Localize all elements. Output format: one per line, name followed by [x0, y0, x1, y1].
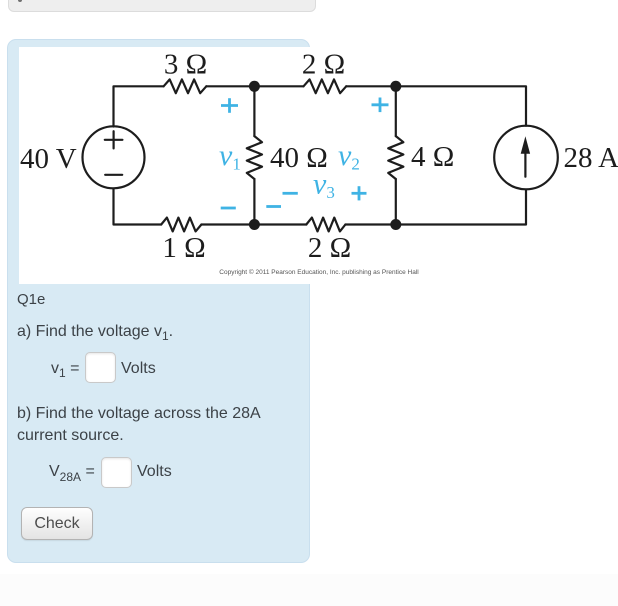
resistor R 2ohm (bottom middle) — [306, 218, 345, 232]
label 2 ohm bottom — [308, 232, 351, 264]
resistor R 4ohm (right vertical branch) — [388, 86, 403, 224]
label 40 ohm — [270, 142, 328, 174]
label 1 ohm — [162, 232, 205, 264]
wire: bottom rail between resistors (through bottom nodes) — [201, 223, 306, 225]
voltage source plus terminal — [105, 131, 123, 148]
wire: top rail left (source top to 3-ohm) — [114, 86, 164, 126]
blue question panel — [7, 39, 310, 563]
resistor R 1ohm (bottom left) — [161, 218, 201, 232]
node D (bottom middle-right junction) — [390, 219, 401, 230]
white circuit figure panel — [19, 47, 618, 284]
node C (bottom middle-left junction) — [249, 219, 260, 230]
wire: top rail between 3-ohm and 2-ohm (through node A) — [206, 85, 303, 87]
label 28 A — [564, 142, 618, 174]
v3 minus sign (left of v3 label) — [283, 192, 298, 195]
v2 plus sign — [372, 98, 389, 113]
resistor R 2ohm (top middle) — [304, 79, 347, 93]
label 40 V — [20, 143, 77, 175]
resistor R 40ohm (middle vertical branch) — [247, 86, 262, 224]
current source arrow — [521, 136, 530, 177]
label v1 — [219, 139, 241, 174]
node B (top middle-right junction) — [390, 81, 401, 92]
page background lower strip — [0, 574, 618, 606]
label 4 ohm — [411, 141, 454, 173]
voltage source V1 40V circle — [83, 126, 145, 188]
wire: current source bottom to bottom rail — [345, 190, 526, 225]
top gray toolbar remnant — [8, 0, 316, 12]
node A (top middle-left junction) — [249, 81, 260, 92]
current source I1 28A circle — [494, 126, 558, 190]
copyright line — [219, 268, 419, 276]
extra minus sign near bottom node — [266, 205, 281, 208]
wire: top rail right + down to current source — [346, 86, 526, 126]
toolbar glyph remnant dot — [18, 0, 22, 2]
label 3 ohm — [164, 49, 207, 81]
resistor R 3ohm (top left) — [164, 79, 207, 93]
voltage source minus terminal — [105, 174, 122, 176]
label v2 — [338, 139, 360, 174]
wire: bottom rail to voltage source bottom — [114, 189, 162, 225]
v3 plus sign (right of v3 label) — [352, 186, 367, 200]
v1 minus sign — [221, 207, 236, 210]
v1 plus sign — [221, 98, 238, 113]
label 2 ohm top — [302, 49, 345, 81]
label v3 — [313, 168, 335, 203]
